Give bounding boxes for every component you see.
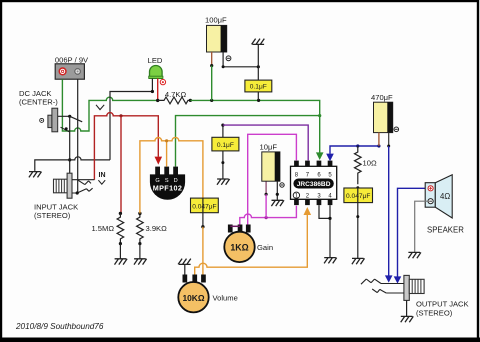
DC jack sleeve switch lever bbox=[61, 127, 70, 132]
wire DC jack center contact down to input jack tip (node) bbox=[68, 116, 71, 173]
DC JACK label bbox=[19, 89, 58, 107]
svg-text:2010/8/9 Southbound76: 2010/8/9 Southbound76 bbox=[15, 322, 104, 331]
speaker 4R label bbox=[440, 192, 450, 201]
ground G5 (3.9K) bbox=[134, 259, 147, 265]
DC jack tip contact wire + switch lever bbox=[58, 105, 104, 122]
capacitor 100uF label bbox=[205, 16, 227, 25]
wire ground riser through 0.1uF to V+ bus bbox=[257, 44, 259, 100]
svg-text:0.1μF: 0.1μF bbox=[217, 142, 234, 149]
capacitor 10uF electrolytic bbox=[262, 152, 284, 187]
wire speaker- to ground bbox=[415, 201, 428, 252]
svg-text:4Ω: 4Ω bbox=[440, 192, 450, 201]
wire red input bus: input jack tip to 1.5M and MPF102 gate bbox=[94, 113, 162, 180]
output jack (stereo) bbox=[404, 275, 424, 300]
capacitor 470uF label bbox=[371, 93, 393, 102]
ground G9 (zobel) bbox=[352, 258, 365, 264]
capacitor 0.047uF (coupling) bbox=[191, 198, 219, 213]
LED bbox=[149, 66, 163, 79]
svg-text:10KΩ: 10KΩ bbox=[182, 293, 204, 303]
wire output jack sleeve to ground bbox=[406, 300, 408, 316]
svg-text:1KΩ: 1KΩ bbox=[230, 243, 248, 253]
potentiometer VR2 10K Volume bbox=[178, 282, 208, 312]
ground G12 (output jack) bbox=[401, 316, 414, 322]
ground G8 (IC pins 3,4) bbox=[324, 258, 337, 264]
Volume label bbox=[213, 294, 238, 303]
wire orange volume wiper bus to IC pin2 with arrow bbox=[195, 207, 311, 275]
wire drain bus green (MPF102 D to pin6 riser) bbox=[176, 114, 322, 167]
transistor Q1 MPF102 bbox=[150, 167, 185, 200]
svg-text:OUTPUT JACK: OUTPUT JACK bbox=[416, 300, 469, 309]
wire IC pins 3+4 to ground bbox=[319, 205, 332, 257]
resistor 3.9K label bbox=[146, 224, 168, 233]
IN label (red) bbox=[99, 172, 106, 179]
capacitor 100uF electrolytic bbox=[207, 25, 231, 60]
wire magenta pin8 to gain pot leg3 bbox=[248, 134, 297, 224]
wire zobel cap to ground bbox=[356, 203, 359, 258]
LED anode marker (red circled dot) bbox=[160, 79, 165, 84]
svg-text:Volume: Volume bbox=[213, 294, 238, 303]
wire magenta pin1 bus to gain wiper and 10uF+ bbox=[240, 206, 297, 225]
SPEAKER label bbox=[427, 226, 464, 235]
wire ground bus from input jack to ground G1 bbox=[35, 157, 110, 171]
INPUT JACK label bbox=[34, 202, 78, 220]
DC jack (barrel) bbox=[40, 108, 58, 132]
svg-text:0.047μF: 0.047μF bbox=[192, 203, 216, 210]
wire blue speaker+ branch down to output jack switch bbox=[394, 188, 429, 283]
svg-text:INPUT JACK: INPUT JACK bbox=[34, 202, 78, 211]
battery 006P/9V bbox=[55, 64, 84, 79]
svg-text:006P / 9V: 006P / 9V bbox=[55, 56, 89, 65]
input jack (stereo) bbox=[54, 173, 73, 198]
wire volume leg1 to ground bbox=[184, 264, 186, 274]
potentiometer VR1 1K Gain legs bbox=[228, 225, 251, 233]
resistor 10R (zobel) bbox=[355, 146, 362, 189]
svg-text:1.5MΩ: 1.5MΩ bbox=[91, 224, 114, 233]
wire pin7 bypass cap leads bbox=[221, 124, 224, 179]
wire battery+ green down to DC jack sleeve then up to V+ bus bbox=[62, 79, 157, 131]
capacitor 10uF label bbox=[260, 143, 278, 152]
wire orange source bus: 3.9K / S pin / coupling cap bbox=[140, 137, 203, 213]
speaker bbox=[425, 175, 452, 218]
svg-text:0.1μF: 0.1μF bbox=[250, 84, 267, 91]
wire LED cathode to ground bus bbox=[110, 79, 154, 160]
wire 100uF- lead to ground riser bbox=[222, 52, 260, 68]
Gain label bbox=[257, 243, 273, 252]
wire blue output: pin5 to bus bbox=[326, 144, 380, 161]
resistor 3.9K bbox=[137, 212, 144, 259]
output jack tip switch contact bbox=[361, 279, 404, 284]
resistor 1.5M bbox=[117, 213, 124, 258]
wire 470uF- blue down to output jack tip bbox=[385, 133, 393, 283]
resistor R 4.7K label bbox=[165, 90, 187, 99]
svg-text:IN: IN bbox=[99, 172, 106, 179]
svg-text:(CENTER-): (CENTER-) bbox=[19, 98, 58, 107]
wire 100uF+ lead to V+ bus bbox=[210, 52, 213, 100]
svg-text:LED: LED bbox=[148, 56, 163, 65]
svg-text:10Ω: 10Ω bbox=[363, 158, 377, 167]
potentiometer VR2 10K Volume legs bbox=[183, 275, 206, 283]
input jack tip switch contact bbox=[72, 180, 105, 185]
resistor 4.7K bbox=[158, 97, 192, 104]
capacitor 470uF electrolytic bbox=[374, 102, 399, 132]
wire red branch down to 1.5M bbox=[119, 116, 122, 215]
svg-text:MPF102: MPF102 bbox=[153, 184, 183, 193]
svg-text:100μF: 100μF bbox=[205, 16, 227, 25]
ground G1 (input side) bbox=[29, 172, 42, 178]
capacitor 0.1uF (pin7 bypass) bbox=[212, 137, 239, 151]
capacitor 0.1uF (supply bypass) bbox=[245, 80, 272, 92]
ground G2 (top, inverted) bbox=[252, 39, 265, 45]
svg-text:JRC386BD: JRC386BD bbox=[297, 181, 331, 188]
ground G3 (pin7 bypass) bbox=[217, 179, 230, 185]
svg-text:4.7KΩ: 4.7KΩ bbox=[165, 90, 187, 99]
capacitor 0.047uF (zobel) bbox=[344, 188, 373, 203]
svg-text:470μF: 470μF bbox=[371, 93, 393, 102]
wire V+ bus green (right of 4.7K) to IC pin6 with arrow bbox=[190, 99, 323, 160]
wire violet pin7 bypass bus bbox=[223, 125, 308, 160]
signature text bbox=[15, 322, 104, 331]
output jack ring switch contact bbox=[372, 289, 404, 293]
ground G6 (volume, inverted) bbox=[178, 259, 191, 265]
svg-text:(STEREO): (STEREO) bbox=[416, 308, 453, 317]
svg-text:Gain: Gain bbox=[257, 243, 273, 252]
wire battery- black down to input jack ring contact bbox=[77, 79, 79, 193]
wire 10uF+ lead bbox=[265, 181, 268, 217]
svg-text:(STEREO): (STEREO) bbox=[34, 211, 71, 220]
wire 470uF+ lead to output bus bbox=[378, 133, 380, 146]
ground G10 (10uF) bbox=[271, 200, 284, 206]
svg-text:10μF: 10μF bbox=[260, 143, 278, 152]
svg-text:SPEAKER: SPEAKER bbox=[427, 226, 464, 235]
op-amp U1 JRC386BD body bbox=[291, 161, 337, 206]
svg-text:3.9KΩ: 3.9KΩ bbox=[146, 224, 168, 233]
svg-text:DC JACK: DC JACK bbox=[19, 89, 52, 98]
ground G4 (1.5M) bbox=[115, 259, 128, 265]
ground G11 (speaker) bbox=[408, 252, 421, 258]
LED label bbox=[148, 56, 163, 65]
wire 10uF- to ground bbox=[276, 181, 279, 200]
potentiometer VR1 1K Gain bbox=[224, 232, 254, 262]
input jack ring switch contact bbox=[72, 188, 93, 194]
wire LED anode (red) to V+ bus bbox=[156, 79, 159, 103]
resistor 1.5M label bbox=[91, 224, 114, 233]
battery 006P/9V label bbox=[55, 56, 89, 65]
wire orange coupling cap to volume pot leg3 bbox=[201, 213, 204, 275]
OUTPUT JACK label bbox=[416, 300, 469, 318]
resistor 10R label bbox=[363, 158, 377, 167]
